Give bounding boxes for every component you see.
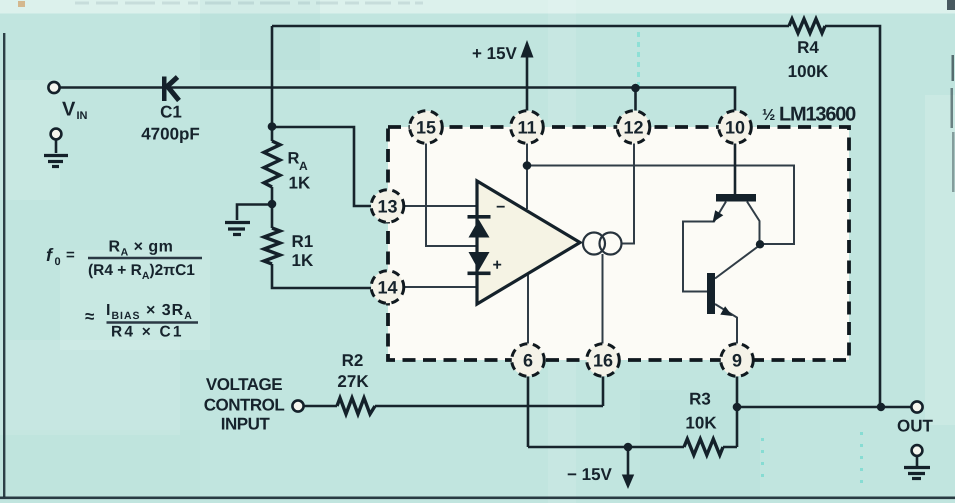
svg-text:LM13600: LM13600	[779, 104, 856, 126]
svg-text:11: 11	[517, 118, 536, 138]
svg-text:9: 9	[732, 351, 742, 371]
svg-text:VOLTAGE: VOLTAGE	[206, 375, 282, 394]
svg-text:R3: R3	[689, 390, 711, 409]
svg-text:1K: 1K	[289, 174, 311, 193]
svg-text:R4 × C1: R4 × C1	[111, 324, 184, 341]
svg-text:=: =	[66, 247, 75, 264]
svg-text:A: A	[299, 159, 308, 173]
svg-text:+ 15V: + 15V	[472, 44, 518, 63]
svg-text:R2: R2	[342, 351, 364, 370]
svg-text:27K: 27K	[337, 372, 369, 391]
svg-text:½: ½	[762, 107, 775, 124]
svg-text:1K: 1K	[292, 251, 314, 270]
svg-text:4700pF: 4700pF	[141, 125, 200, 144]
svg-text:R: R	[288, 150, 300, 168]
svg-text:C1: C1	[160, 103, 182, 122]
svg-text:R4: R4	[797, 38, 819, 57]
svg-text:16: 16	[593, 351, 613, 371]
svg-text:13: 13	[377, 197, 397, 217]
svg-text:100K: 100K	[788, 62, 829, 81]
svg-text:−: −	[496, 199, 505, 216]
svg-text:OUT: OUT	[897, 417, 934, 436]
svg-text:IN: IN	[77, 110, 88, 122]
svg-text:10: 10	[725, 118, 745, 138]
svg-text:+: +	[493, 257, 502, 274]
svg-text:10K: 10K	[685, 414, 717, 433]
svg-text:12: 12	[623, 118, 643, 138]
svg-text:V: V	[62, 99, 76, 121]
svg-text:− 15V: − 15V	[567, 465, 613, 484]
svg-text:14: 14	[377, 278, 397, 298]
svg-text:≈: ≈	[85, 307, 94, 326]
svg-text:15: 15	[416, 118, 436, 138]
svg-text:0: 0	[55, 256, 61, 268]
svg-text:CONTROL: CONTROL	[204, 396, 285, 415]
svg-text:6: 6	[523, 351, 533, 371]
svg-text:INPUT: INPUT	[221, 415, 271, 434]
svg-text:R1: R1	[292, 232, 314, 251]
